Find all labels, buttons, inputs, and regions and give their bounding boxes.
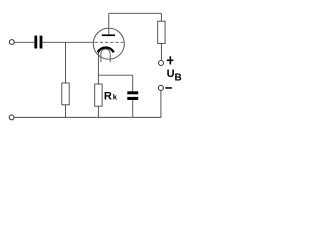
coupling capacitor C1	[34, 36, 42, 49]
cathode resistor Rk lead (bottom)	[97, 106, 99, 117]
wire cathode to bypass capacitor	[98, 74, 132, 76]
cathode arc	[98, 48, 114, 53]
triode V1 envelope	[93, 28, 124, 59]
cathode lead	[97, 52, 99, 84]
input terminal (top left)	[9, 40, 14, 45]
top wire anode to Ra	[109, 12, 162, 14]
plus sign	[167, 56, 174, 64]
ground terminal (bottom left)	[9, 115, 14, 120]
grid resistor R1 lead (top)	[65, 42, 67, 83]
svg-text:R: R	[104, 91, 112, 103]
heater filament	[101, 49, 110, 62]
anode resistor Ra lead (bottom)	[160, 44, 162, 61]
anode resistor Ra lead (top)	[160, 13, 162, 21]
supply - terminal	[158, 85, 163, 90]
svg-text:B: B	[175, 72, 182, 83]
cathode resistor Rk	[95, 84, 102, 106]
wire input to coupling capacitor	[14, 41, 34, 43]
grid resistor R1	[62, 83, 69, 105]
minus sign	[165, 87, 172, 89]
supply + terminal	[159, 61, 164, 66]
grid resistor R1 lead (bottom)	[65, 105, 67, 118]
bypass capacitor Ck lead (top)	[132, 75, 134, 91]
label UB	[167, 68, 182, 83]
grid (dashed)	[95, 41, 124, 43]
wire coupling capacitor to grid	[43, 41, 94, 43]
anode plate bar	[102, 34, 115, 36]
wire - terminal to bottom wire	[160, 90, 162, 117]
bypass capacitor Ck lead (bottom)	[132, 100, 134, 117]
svg-text:U: U	[167, 68, 175, 80]
bypass capacitor Ck	[127, 91, 138, 100]
bottom wire	[14, 116, 161, 118]
anode resistor Ra	[158, 21, 165, 43]
anode lead	[108, 13, 110, 34]
